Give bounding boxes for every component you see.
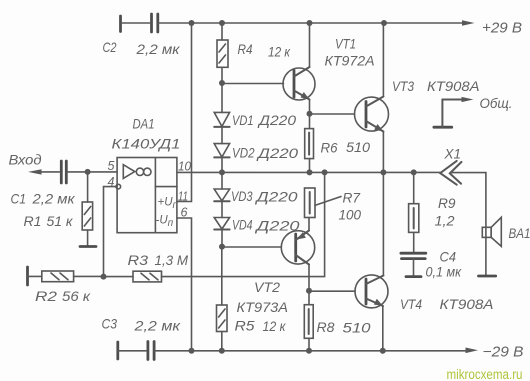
svg-text:C4: C4 bbox=[440, 249, 457, 265]
svg-text:R3: R3 bbox=[128, 252, 149, 268]
node bottom rail junction M bbox=[306, 348, 312, 354]
svg-text:VT4: VT4 bbox=[400, 296, 422, 312]
capacitor C4 bbox=[401, 253, 426, 276]
svg-text:11: 11 bbox=[178, 190, 188, 204]
svg-text:+Uп: +Uп bbox=[158, 197, 179, 212]
svg-text:R8: R8 bbox=[317, 319, 335, 335]
wire feedback R3 to output rail bbox=[162, 172, 325, 276]
ground terminal Общ bbox=[434, 97, 474, 127]
svg-text:Вход: Вход bbox=[9, 152, 42, 168]
svg-text:КТ973А: КТ973А bbox=[237, 299, 289, 315]
svg-text:100: 100 bbox=[339, 207, 362, 223]
wire op-amp pin 4 to feedback node bbox=[104, 187, 117, 277]
svg-text:C2: C2 bbox=[103, 39, 117, 55]
connector X1 bbox=[440, 161, 486, 185]
capacitor C3 bbox=[118, 342, 154, 360]
svg-text:Д220: Д220 bbox=[257, 112, 296, 128]
svg-text:КТ908А: КТ908А bbox=[427, 78, 480, 94]
svg-text:1,2: 1,2 bbox=[435, 213, 455, 229]
svg-text:VD4: VD4 bbox=[232, 217, 253, 233]
svg-text:Д220: Д220 bbox=[254, 189, 298, 205]
transistor Q4 VT4 bbox=[355, 172, 388, 350]
node top rail junction B bbox=[219, 20, 225, 26]
pin 4 inverting input circle bbox=[116, 184, 121, 189]
diode VD2 bbox=[214, 127, 229, 157]
resistor R9 bbox=[409, 204, 419, 252]
svg-text:−29 В: −29 В bbox=[483, 344, 524, 361]
wire VT3 base bbox=[310, 113, 355, 115]
wire output rail bbox=[177, 171, 440, 173]
svg-text:VD1: VD1 bbox=[232, 112, 254, 128]
svg-text:C3: C3 bbox=[102, 316, 118, 332]
node output rail at R9 bbox=[411, 169, 417, 175]
svg-text:12 к: 12 к bbox=[268, 44, 291, 60]
svg-text:5: 5 bbox=[108, 159, 115, 173]
speaker BA1 bbox=[479, 217, 502, 276]
svg-text:2,2 мк: 2,2 мк bbox=[133, 318, 181, 334]
node I (VT1 emitter / R6 / VT3 base) bbox=[307, 111, 313, 117]
diode VD1 bbox=[214, 83, 229, 127]
svg-text:510: 510 bbox=[346, 139, 370, 155]
svg-text:КТ908А: КТ908А bbox=[440, 296, 494, 312]
svg-text:R4: R4 bbox=[238, 41, 253, 57]
svg-text:R7: R7 bbox=[343, 190, 362, 206]
capacitor C1 bbox=[61, 161, 66, 183]
wire C1 to op-amp pin 5 bbox=[66, 171, 117, 173]
node F (C1 / R1) bbox=[85, 169, 91, 175]
power terminal +29 В bbox=[462, 20, 522, 37]
wire node F to R1 bbox=[87, 172, 89, 202]
transistor Q3 VT3 bbox=[355, 23, 389, 172]
input terminal Вход bbox=[28, 169, 60, 174]
svg-text:X1: X1 bbox=[444, 146, 461, 162]
svg-text:2,2 мк: 2,2 мк bbox=[135, 41, 181, 57]
resistor R5 bbox=[217, 305, 228, 351]
svg-text:+29 В: +29 В bbox=[482, 20, 522, 37]
wire VD2 to output node bbox=[221, 157, 223, 172]
power terminal -29 В bbox=[466, 344, 524, 361]
wire X1 to speaker bbox=[485, 173, 487, 276]
svg-text:510: 510 bbox=[343, 320, 371, 336]
svg-text:Общ.: Общ. bbox=[480, 95, 513, 111]
wire VT4 base bbox=[309, 290, 355, 292]
svg-text:DA1: DA1 bbox=[133, 116, 155, 132]
node top rail junction D bbox=[381, 20, 387, 26]
svg-text:2,2 мк: 2,2 мк bbox=[31, 191, 76, 207]
svg-text:C1: C1 bbox=[11, 191, 27, 207]
resistor R6 bbox=[305, 114, 314, 173]
node G (R2 / R3 / pin 4) bbox=[101, 274, 107, 280]
node output rail at VT3/VT4 bbox=[380, 169, 386, 175]
svg-text:mikrocxema.ru: mikrocxema.ru bbox=[447, 367, 523, 381]
svg-text:Д220: Д220 bbox=[256, 145, 299, 161]
svg-text:10: 10 bbox=[178, 160, 191, 174]
svg-text:56 к: 56 к bbox=[62, 288, 91, 304]
wire VT2 base bbox=[222, 246, 281, 248]
svg-text:R5: R5 bbox=[235, 318, 255, 334]
node output rail at diode chain bbox=[219, 169, 225, 175]
op-amp U1 DA1 bbox=[117, 158, 177, 233]
node E (R4 / VD1 / VT1 base) bbox=[219, 80, 225, 86]
wire R4 to node E bbox=[221, 67, 223, 83]
node bottom rail junction N bbox=[380, 348, 386, 354]
transistor Q2 VT2 bbox=[281, 231, 314, 291]
wire VD4 to node H bbox=[221, 230, 223, 247]
node H (VD4 / R5 / VT2 base) bbox=[219, 244, 225, 250]
svg-text:12 к: 12 к bbox=[263, 318, 287, 334]
node bottom rail junction L bbox=[219, 348, 225, 354]
wire +Uп supply from rail to pin 11 bbox=[177, 23, 192, 202]
node output rail at feedback bbox=[322, 169, 328, 175]
svg-text:К140УД1: К140УД1 bbox=[112, 136, 181, 152]
wire -Uп pin 6 to bottom rail bbox=[177, 218, 192, 351]
node bottom rail junction K bbox=[189, 348, 195, 354]
wire R7 to VT2 emitter bbox=[308, 218, 310, 231]
wire top +29V rail bbox=[158, 22, 465, 24]
resistor R4 bbox=[217, 40, 228, 67]
diode VD3 bbox=[214, 172, 229, 201]
svg-text:0,1 мк: 0,1 мк bbox=[426, 264, 463, 280]
svg-text:VT2: VT2 bbox=[254, 279, 280, 295]
svg-text:VT1: VT1 bbox=[335, 36, 356, 52]
resistor R8 bbox=[304, 291, 313, 351]
svg-text:R9: R9 bbox=[438, 195, 456, 211]
svg-text:КТ972А: КТ972А bbox=[325, 53, 375, 69]
resistor R3 bbox=[104, 271, 162, 282]
wire R9 branch bbox=[413, 172, 415, 203]
svg-text:VT3: VT3 bbox=[392, 78, 414, 94]
node top rail junction A bbox=[189, 20, 195, 26]
resistor R7 bbox=[305, 188, 342, 218]
node output rail at R6/R7 bbox=[307, 169, 313, 175]
svg-text:VD3: VD3 bbox=[231, 188, 253, 204]
wire node H to R5 bbox=[221, 247, 223, 305]
svg-text:R2: R2 bbox=[35, 288, 57, 304]
svg-text:BA1: BA1 bbox=[509, 225, 530, 241]
svg-text:R6: R6 bbox=[321, 140, 338, 156]
wire VT1 base bbox=[222, 83, 284, 85]
svg-text:-Uп: -Uп bbox=[156, 215, 174, 230]
node J (VT2 collector / R8 / VT4 base) bbox=[306, 288, 312, 294]
svg-text:R1: R1 bbox=[24, 213, 42, 229]
wire bottom -29V rail bbox=[154, 350, 468, 352]
svg-text:VD2: VD2 bbox=[232, 145, 255, 161]
capacitor C2 bbox=[121, 14, 158, 32]
transistor Q1 VT1 bbox=[283, 23, 315, 114]
wire rail to R4 bbox=[221, 23, 223, 40]
diode VD4 bbox=[214, 201, 229, 229]
svg-text:51 к: 51 к bbox=[47, 213, 74, 229]
resistor R1 bbox=[80, 202, 96, 247]
resistor R2 bbox=[28, 267, 104, 285]
node top rail junction C bbox=[307, 20, 313, 26]
svg-text:1,3 М: 1,3 М bbox=[155, 252, 189, 268]
